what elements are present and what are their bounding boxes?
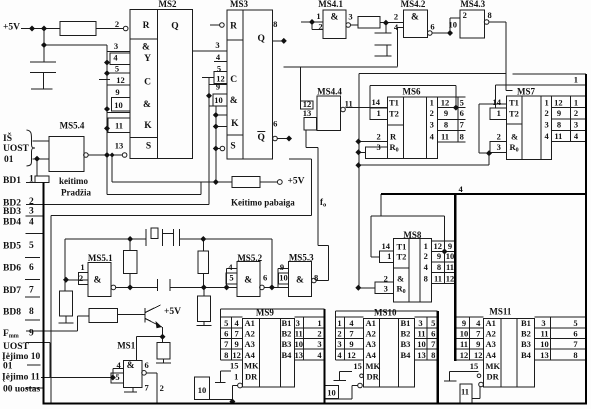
- svg-text:2: 2: [337, 329, 341, 339]
- svg-text:1: 1: [424, 241, 428, 251]
- svg-text:11: 11: [434, 274, 442, 284]
- svg-text:T1: T1: [509, 98, 519, 108]
- svg-text:B4: B4: [401, 350, 412, 360]
- svg-text:7: 7: [431, 339, 436, 349]
- svg-text:&: &: [511, 132, 518, 142]
- svg-text:7: 7: [144, 383, 149, 393]
- svg-text:MK: MK: [366, 361, 381, 371]
- svg-text:14: 14: [382, 241, 391, 251]
- svg-text:8: 8: [273, 19, 277, 29]
- svg-text:7: 7: [349, 329, 354, 339]
- svg-text:MS2: MS2: [159, 0, 178, 9]
- svg-text:13: 13: [295, 350, 304, 360]
- svg-text:B3: B3: [401, 339, 411, 349]
- svg-text:1: 1: [544, 98, 548, 108]
- svg-text:5: 5: [573, 318, 577, 328]
- svg-text:1: 1: [574, 75, 578, 85]
- svg-text:Keitimo pabaiga: Keitimo pabaiga: [231, 198, 295, 208]
- svg-text:T2: T2: [509, 109, 519, 119]
- svg-text:1: 1: [387, 251, 391, 261]
- svg-text:11: 11: [554, 131, 562, 141]
- svg-text:T1: T1: [389, 98, 399, 108]
- svg-text:Y: Y: [144, 54, 151, 64]
- svg-text:BD7: BD7: [3, 286, 21, 296]
- svg-text:12: 12: [474, 350, 483, 360]
- svg-text:6: 6: [263, 273, 267, 283]
- svg-text:2: 2: [317, 329, 321, 339]
- svg-text:1: 1: [29, 175, 34, 185]
- svg-text:3: 3: [29, 207, 34, 217]
- svg-text:7: 7: [460, 120, 465, 130]
- svg-text:13: 13: [115, 141, 124, 151]
- svg-text:3: 3: [348, 12, 352, 22]
- svg-text:5: 5: [217, 64, 221, 74]
- svg-text:2: 2: [394, 12, 398, 22]
- svg-text:2: 2: [160, 383, 164, 393]
- svg-text:MS9: MS9: [256, 308, 275, 318]
- svg-text:A1: A1: [366, 318, 376, 328]
- svg-text:&: &: [296, 276, 304, 286]
- svg-text:B4: B4: [521, 350, 532, 360]
- svg-text:K: K: [231, 119, 239, 129]
- svg-text:8: 8: [487, 10, 491, 20]
- svg-text:8: 8: [314, 273, 318, 283]
- svg-text:8: 8: [431, 350, 435, 360]
- svg-text:BD3: BD3: [3, 207, 21, 217]
- svg-text:MS1: MS1: [117, 341, 136, 351]
- svg-text:3: 3: [376, 142, 380, 152]
- svg-text:9: 9: [349, 339, 353, 349]
- svg-text:7: 7: [476, 329, 481, 339]
- svg-text:10: 10: [214, 95, 223, 105]
- svg-text:A1: A1: [245, 318, 255, 328]
- svg-text:A4: A4: [245, 350, 256, 360]
- svg-text:5: 5: [460, 98, 464, 108]
- svg-text:1: 1: [430, 98, 434, 108]
- svg-text:UOST: UOST: [3, 144, 30, 154]
- svg-text:B4: B4: [282, 350, 293, 360]
- svg-text:15: 15: [353, 361, 362, 371]
- svg-text:6: 6: [431, 329, 435, 339]
- svg-text:BD6: BD6: [3, 264, 21, 274]
- svg-text:MK: MK: [486, 361, 501, 371]
- svg-text:MS6: MS6: [403, 87, 422, 97]
- svg-text:3: 3: [114, 41, 118, 51]
- svg-text:12: 12: [460, 350, 469, 360]
- svg-text:BD5: BD5: [3, 242, 21, 252]
- svg-text:11: 11: [345, 99, 353, 109]
- svg-text:2: 2: [544, 108, 548, 118]
- svg-text:T1: T1: [397, 242, 407, 252]
- svg-text:12: 12: [232, 350, 241, 360]
- svg-text:BD1: BD1: [3, 176, 21, 186]
- svg-text:8: 8: [424, 274, 428, 284]
- svg-text:4: 4: [234, 318, 239, 328]
- svg-text:fo: fo: [320, 197, 326, 209]
- svg-text:01: 01: [3, 362, 13, 372]
- svg-text:MS5.1: MS5.1: [88, 253, 113, 263]
- svg-text:R0: R0: [390, 142, 399, 154]
- svg-text:+5V: +5V: [164, 307, 181, 317]
- svg-text:1: 1: [317, 318, 321, 328]
- svg-text:K: K: [144, 121, 152, 131]
- svg-text:11: 11: [295, 329, 303, 339]
- svg-text:4: 4: [458, 184, 463, 194]
- svg-text:11: 11: [446, 262, 454, 272]
- svg-text:A3: A3: [245, 339, 255, 349]
- svg-text:C: C: [144, 78, 151, 88]
- svg-text:A4: A4: [486, 350, 497, 360]
- svg-text:IŠ: IŠ: [3, 131, 12, 144]
- svg-text:4: 4: [228, 262, 233, 272]
- svg-text:12: 12: [446, 274, 455, 284]
- svg-text:2: 2: [430, 108, 434, 118]
- svg-text:12: 12: [116, 75, 125, 85]
- svg-text:5: 5: [29, 241, 34, 251]
- svg-text:+5V: +5V: [3, 23, 20, 33]
- svg-text:&: &: [94, 276, 102, 286]
- svg-text:R: R: [390, 132, 397, 142]
- svg-text:5: 5: [229, 273, 233, 283]
- svg-text:MS4.4: MS4.4: [317, 87, 342, 97]
- svg-text:B2: B2: [282, 329, 292, 339]
- svg-text:10: 10: [279, 273, 288, 283]
- svg-text:9: 9: [280, 262, 284, 272]
- svg-text:11: 11: [417, 329, 425, 339]
- svg-text:MS11: MS11: [489, 307, 512, 317]
- svg-text:B3: B3: [521, 339, 531, 349]
- svg-text:4: 4: [317, 350, 322, 360]
- svg-text:01: 01: [4, 155, 14, 165]
- svg-text:&: &: [411, 13, 419, 23]
- svg-text:12: 12: [347, 350, 356, 360]
- svg-text:A2: A2: [486, 329, 496, 339]
- svg-text:A3: A3: [366, 339, 376, 349]
- svg-text:9: 9: [29, 329, 34, 339]
- svg-text:&: &: [230, 96, 238, 106]
- svg-text:2: 2: [376, 132, 380, 142]
- svg-text:&: &: [331, 13, 339, 23]
- svg-text:9: 9: [462, 318, 466, 328]
- svg-text:11: 11: [441, 132, 449, 142]
- svg-text:8: 8: [29, 307, 34, 317]
- svg-text:Q: Q: [258, 34, 265, 44]
- svg-text:R0: R0: [397, 284, 406, 296]
- svg-text:15: 15: [470, 361, 479, 371]
- svg-text:Q: Q: [258, 133, 265, 143]
- svg-text:DR: DR: [245, 372, 258, 382]
- svg-text:T2: T2: [397, 252, 407, 262]
- svg-text:3: 3: [384, 284, 388, 294]
- svg-text:8: 8: [444, 120, 448, 130]
- svg-text:2: 2: [115, 19, 119, 29]
- svg-text:4: 4: [574, 131, 579, 141]
- svg-text:3: 3: [296, 318, 300, 328]
- svg-text:4: 4: [349, 318, 354, 328]
- svg-text:13: 13: [417, 350, 426, 360]
- svg-text:2: 2: [424, 251, 428, 261]
- svg-text:B1: B1: [521, 318, 531, 328]
- svg-text:14: 14: [493, 97, 502, 107]
- svg-text:6: 6: [430, 22, 434, 32]
- svg-text:B1: B1: [401, 318, 411, 328]
- svg-text:9: 9: [448, 241, 452, 251]
- svg-text:7: 7: [234, 329, 239, 339]
- svg-text:5: 5: [115, 372, 119, 382]
- svg-text:13: 13: [540, 350, 549, 360]
- svg-text:3: 3: [317, 339, 321, 349]
- svg-text:9: 9: [234, 339, 238, 349]
- svg-text:4: 4: [424, 262, 429, 272]
- svg-text:1: 1: [337, 318, 341, 328]
- svg-text:MS4.2: MS4.2: [401, 0, 426, 9]
- svg-text:DR: DR: [487, 372, 500, 382]
- svg-text:Fmm: Fmm: [3, 329, 19, 340]
- svg-text:MS8: MS8: [403, 230, 422, 240]
- svg-text:12: 12: [434, 241, 443, 251]
- svg-text:MS4.1: MS4.1: [318, 0, 343, 9]
- svg-text:10: 10: [327, 388, 336, 398]
- svg-text:8: 8: [557, 120, 561, 130]
- svg-text:3: 3: [418, 318, 422, 328]
- svg-text:9: 9: [216, 82, 220, 92]
- svg-text:1: 1: [376, 108, 380, 118]
- svg-text:5: 5: [431, 318, 435, 328]
- svg-text:9: 9: [476, 339, 480, 349]
- svg-text:10: 10: [448, 20, 457, 30]
- svg-text:3: 3: [430, 120, 434, 130]
- svg-text:8: 8: [573, 350, 577, 360]
- svg-text:3: 3: [497, 142, 501, 152]
- svg-text:14: 14: [371, 97, 380, 107]
- svg-text:7: 7: [224, 339, 229, 349]
- svg-text:Įėjimo 10: Įėjimo 10: [2, 352, 41, 362]
- svg-text:10: 10: [417, 339, 426, 349]
- svg-text:8: 8: [224, 350, 228, 360]
- svg-text:UOST: UOST: [3, 342, 30, 352]
- svg-text:10: 10: [540, 339, 549, 349]
- svg-text:MS4.3: MS4.3: [460, 0, 485, 9]
- svg-text:4: 4: [430, 132, 435, 142]
- svg-text:9: 9: [557, 108, 561, 118]
- svg-text:11: 11: [460, 339, 468, 349]
- svg-text:MK: MK: [244, 361, 259, 371]
- svg-text:4: 4: [116, 360, 121, 370]
- svg-text:4: 4: [337, 350, 342, 360]
- svg-text:B3: B3: [282, 339, 292, 349]
- svg-text:3: 3: [574, 120, 578, 130]
- svg-text:2: 2: [79, 273, 83, 283]
- svg-text:R: R: [143, 21, 150, 31]
- svg-text:&: &: [397, 274, 404, 284]
- svg-text:2: 2: [29, 197, 34, 207]
- svg-text:00 uostas: 00 uostas: [3, 385, 41, 395]
- svg-text:B1: B1: [282, 318, 292, 328]
- svg-text:keitimo: keitimo: [59, 176, 88, 186]
- svg-text:5: 5: [224, 318, 228, 328]
- svg-text:11: 11: [115, 121, 123, 131]
- svg-text:MS5.3: MS5.3: [289, 253, 314, 263]
- svg-text:A1: A1: [486, 318, 496, 328]
- svg-text:10: 10: [446, 251, 455, 261]
- svg-text:4: 4: [476, 318, 481, 328]
- svg-text:A2: A2: [245, 329, 255, 339]
- svg-text:6: 6: [29, 263, 34, 273]
- svg-text:6: 6: [273, 119, 277, 129]
- svg-text:A4: A4: [366, 350, 377, 360]
- svg-text:MS3: MS3: [230, 0, 249, 9]
- svg-text:12: 12: [441, 98, 450, 108]
- svg-text:10: 10: [114, 100, 123, 110]
- svg-text:15: 15: [230, 361, 239, 371]
- svg-text:A3: A3: [486, 339, 496, 349]
- svg-text:11: 11: [461, 387, 469, 397]
- svg-text:Įėjimo 11: Įėjimo 11: [2, 373, 40, 383]
- svg-text:T2: T2: [389, 109, 399, 119]
- svg-text:Pradžia: Pradžia: [61, 188, 91, 198]
- svg-text:1: 1: [497, 108, 501, 118]
- svg-text:7: 7: [573, 339, 578, 349]
- svg-text:1: 1: [234, 372, 238, 382]
- svg-text:2: 2: [318, 22, 322, 32]
- svg-text:1: 1: [574, 98, 578, 108]
- svg-text:&: &: [244, 276, 252, 286]
- svg-text:Q: Q: [171, 22, 178, 32]
- svg-text:3: 3: [215, 40, 219, 50]
- svg-text:2: 2: [574, 108, 578, 118]
- svg-text:3: 3: [544, 120, 548, 130]
- svg-text:R0: R0: [510, 142, 519, 154]
- svg-text:10: 10: [295, 339, 304, 349]
- svg-text:11: 11: [540, 329, 548, 339]
- svg-text:B2: B2: [401, 329, 411, 339]
- svg-text:6: 6: [460, 108, 464, 118]
- svg-text:&: &: [127, 361, 135, 371]
- svg-text:1: 1: [316, 11, 320, 21]
- svg-text:MS10: MS10: [374, 308, 397, 318]
- svg-text:4: 4: [29, 217, 34, 227]
- svg-text:13: 13: [303, 108, 312, 118]
- svg-text:9: 9: [444, 108, 448, 118]
- svg-text:MS7: MS7: [517, 87, 536, 97]
- svg-text:DR: DR: [367, 372, 380, 382]
- svg-text:10: 10: [460, 329, 469, 339]
- svg-text:2: 2: [497, 132, 501, 142]
- svg-text:6: 6: [144, 360, 148, 370]
- svg-text:B2: B2: [521, 329, 531, 339]
- svg-text:BD8: BD8: [3, 308, 21, 318]
- svg-text:BD4: BD4: [3, 218, 21, 228]
- svg-text:5: 5: [115, 64, 119, 74]
- svg-text:S: S: [230, 142, 235, 152]
- svg-text:3: 3: [337, 339, 341, 349]
- svg-text:4: 4: [544, 131, 549, 141]
- svg-text:7: 7: [29, 286, 34, 296]
- svg-text:6: 6: [573, 329, 577, 339]
- svg-text:8: 8: [437, 262, 441, 272]
- svg-text:1: 1: [80, 262, 84, 272]
- svg-text:4: 4: [113, 53, 118, 63]
- svg-text:2: 2: [384, 274, 388, 284]
- svg-text:A2: A2: [366, 329, 376, 339]
- svg-text:MS5.4: MS5.4: [60, 121, 85, 131]
- svg-text:2: 2: [463, 10, 467, 20]
- svg-text:&: &: [142, 43, 150, 53]
- svg-text:S: S: [146, 142, 151, 152]
- svg-text:6: 6: [224, 329, 228, 339]
- svg-text:10: 10: [198, 385, 207, 395]
- svg-text:4: 4: [216, 52, 221, 62]
- svg-text:MS5.2: MS5.2: [237, 253, 262, 263]
- svg-text:C: C: [230, 75, 237, 85]
- svg-text:8: 8: [460, 132, 464, 142]
- svg-text:12: 12: [554, 98, 563, 108]
- svg-text:+5V: +5V: [288, 177, 305, 187]
- svg-text:R: R: [230, 22, 237, 32]
- svg-text:9: 9: [115, 87, 119, 97]
- svg-text:9: 9: [437, 251, 441, 261]
- svg-text:3: 3: [541, 318, 545, 328]
- svg-text:&: &: [143, 100, 151, 110]
